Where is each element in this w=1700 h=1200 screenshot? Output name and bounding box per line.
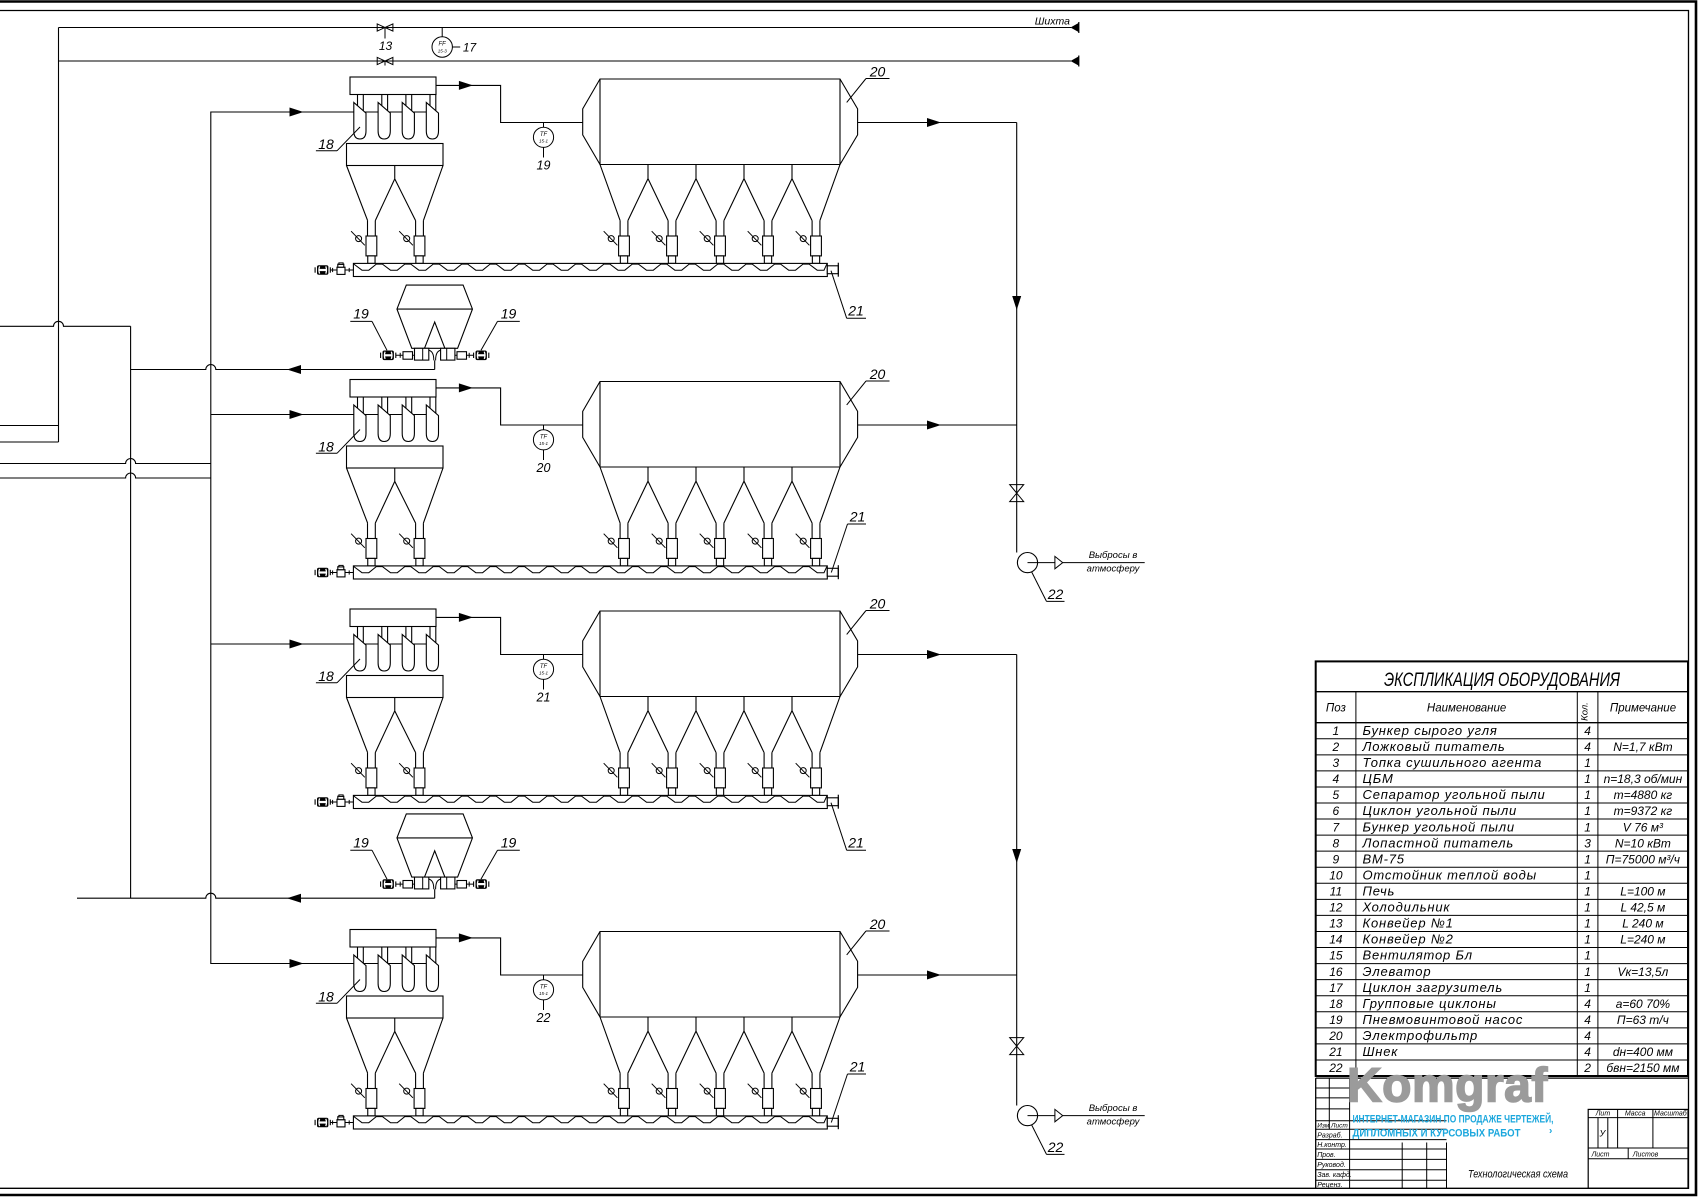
svg-text:Н.контр.: Н.контр. xyxy=(1317,1142,1347,1149)
svg-text:4: 4 xyxy=(1584,997,1591,1011)
svg-text:L=100 м: L=100 м xyxy=(1620,885,1665,899)
fan 22 xyxy=(1017,553,1037,573)
svg-text:ДИПЛОМНЫХ И КУРСОВЫХ РАБОТ: ДИПЛОМНЫХ И КУРСОВЫХ РАБОТ xyxy=(1353,1127,1521,1139)
svg-text:19: 19 xyxy=(537,159,551,173)
svg-text:1: 1 xyxy=(1584,965,1591,979)
svg-text:19: 19 xyxy=(1329,1013,1343,1027)
svg-text:Лист: Лист xyxy=(1330,1123,1348,1130)
svg-text:Зав. кафд.: Зав. кафд. xyxy=(1317,1171,1352,1179)
pump return line 2 xyxy=(77,893,435,898)
svg-text:1: 1 xyxy=(1584,820,1591,834)
collector valve xyxy=(1010,1038,1024,1055)
svg-text:21: 21 xyxy=(847,303,864,319)
charge arrow 1 xyxy=(1071,23,1079,32)
svg-text:Масштаб: Масштаб xyxy=(1654,1110,1688,1118)
svg-text:Конвейер №1: Конвейер №1 xyxy=(1363,916,1454,931)
svg-text:Конвейер №2: Конвейер №2 xyxy=(1363,932,1454,947)
svg-text:1: 1 xyxy=(1584,917,1591,931)
svg-text:4: 4 xyxy=(1584,1029,1591,1043)
pump return line 1 xyxy=(131,365,435,370)
svg-text:Лит: Лит xyxy=(1595,1111,1611,1118)
svg-text:22: 22 xyxy=(1047,1139,1064,1155)
svg-text:4: 4 xyxy=(1584,1013,1591,1027)
svg-text:Vк=13,5л: Vк=13,5л xyxy=(1617,965,1668,979)
svg-text:L=240 м: L=240 м xyxy=(1620,933,1665,947)
svg-text:Вентилятор Бл: Вентилятор Бл xyxy=(1363,948,1473,963)
svg-text:3: 3 xyxy=(1584,836,1591,850)
supply line 2 xyxy=(0,473,211,478)
svg-text:Шнек: Шнек xyxy=(1363,1044,1399,1059)
inlet manifold behind cyclones s4 xyxy=(304,963,434,965)
svg-text:L 42,5 м: L 42,5 м xyxy=(1621,901,1666,915)
svg-text:14: 14 xyxy=(1329,933,1343,947)
svg-text:10: 10 xyxy=(1329,868,1343,882)
svg-text:Разраб.: Разраб. xyxy=(1317,1131,1342,1139)
title block frame xyxy=(1316,1077,1688,1079)
svg-text:атмосферу: атмосферу xyxy=(1087,1117,1141,1128)
section 4 xyxy=(315,916,1017,1129)
flow instrument 17 xyxy=(441,28,443,37)
svg-text:ВМ-75: ВМ-75 xyxy=(1363,851,1405,866)
svg-text:Циклон загрузитель: Циклон загрузитель xyxy=(1363,980,1503,995)
valve 13 upper xyxy=(377,24,393,31)
svg-text:5: 5 xyxy=(1333,788,1340,802)
inlet manifold behind cyclones s2 xyxy=(304,414,434,416)
svg-text:21: 21 xyxy=(536,691,551,705)
svg-text:17: 17 xyxy=(1329,981,1344,995)
svg-text:Ложковый питатель: Ложковый питатель xyxy=(1362,739,1506,754)
svg-text:1: 1 xyxy=(1584,852,1591,866)
svg-text:a=60 70%: a=60 70% xyxy=(1616,997,1671,1011)
svg-text:Поз: Поз xyxy=(1326,703,1347,715)
svg-text:4: 4 xyxy=(1584,1045,1591,1059)
svg-text:dн=400 мм: dн=400 мм xyxy=(1613,1045,1673,1059)
svg-text:1: 1 xyxy=(1584,868,1591,882)
svg-text:1: 1 xyxy=(1333,724,1340,738)
section 2 xyxy=(315,366,1017,579)
charge line 2 xyxy=(59,60,1072,62)
svg-text:Выбросы в: Выбросы в xyxy=(1089,550,1138,561)
svg-text:П=75000 м³/ч: П=75000 м³/ч xyxy=(1606,852,1680,866)
svg-text:18: 18 xyxy=(1329,997,1343,1011)
svg-text:22: 22 xyxy=(1047,586,1064,602)
equipment table frame xyxy=(1316,661,1688,1076)
svg-text:Листов: Листов xyxy=(1632,1151,1659,1158)
collector valve xyxy=(1010,485,1024,502)
svg-text:13: 13 xyxy=(379,39,393,53)
svg-text:2: 2 xyxy=(1332,740,1340,754)
svg-text:m=9372 кг: m=9372 кг xyxy=(1614,804,1673,818)
offpage stub lower xyxy=(0,441,59,443)
offpage stub upper xyxy=(0,425,59,427)
return riser xyxy=(130,326,132,898)
title block small grid xyxy=(1316,1087,1350,1089)
svg-text:1: 1 xyxy=(1584,933,1591,947)
svg-text:21: 21 xyxy=(849,1059,866,1075)
svg-text:1: 1 xyxy=(1584,788,1591,802)
fan 22 xyxy=(1017,1106,1037,1126)
svg-text:4: 4 xyxy=(1333,772,1340,786)
svg-text:13: 13 xyxy=(1329,917,1343,931)
svg-text:20: 20 xyxy=(536,461,551,475)
svg-text:Технологическая схема: Технологическая схема xyxy=(1468,1169,1568,1181)
svg-text:Отстойник теплой воды: Отстойник теплой воды xyxy=(1363,867,1537,882)
svg-text:1: 1 xyxy=(1584,981,1591,995)
svg-text:Выбросы в: Выбросы в xyxy=(1089,1103,1138,1114)
svg-text:атмосферу: атмосферу xyxy=(1087,564,1141,575)
svg-text:Электрофильтр: Электрофильтр xyxy=(1363,1028,1479,1043)
svg-text:Komgraf: Komgraf xyxy=(1347,1060,1548,1113)
feed branch section 2 xyxy=(211,414,354,416)
svg-text:ИНТЕРНЕТ-МАГАЗИН ПО ПРОДАЖЕ ЧЕ: ИНТЕРНЕТ-МАГАЗИН ПО ПРОДАЖЕ ЧЕРТЕЖЕЙ, xyxy=(1353,1112,1554,1125)
charge arrow 2 xyxy=(1071,57,1079,66)
svg-text:21: 21 xyxy=(847,835,864,851)
svg-text:8: 8 xyxy=(1333,836,1340,850)
collector riser xyxy=(1016,655,1018,1106)
pneumo-screw pump unit 19 upper xyxy=(350,285,520,369)
svg-text:Изм: Изм xyxy=(1317,1123,1330,1130)
right liter table xyxy=(1588,1109,1688,1188)
svg-text:Масса: Масса xyxy=(1625,1111,1646,1118)
left riser xyxy=(58,28,60,443)
svg-text:1: 1 xyxy=(1584,756,1591,770)
inlet manifold behind cyclones s3 xyxy=(304,643,434,645)
svg-text:m=4880 кг: m=4880 кг xyxy=(1614,788,1673,802)
valve 13 lower xyxy=(377,57,393,64)
svg-text:Печь: Печь xyxy=(1363,884,1396,899)
svg-text:ЦБМ: ЦБМ xyxy=(1363,771,1394,786)
collector riser xyxy=(1016,123,1018,553)
svg-text:21: 21 xyxy=(849,509,866,525)
svg-text:Бункер сырого угля: Бункер сырого угля xyxy=(1363,723,1498,738)
svg-text:Руковод.: Руковод. xyxy=(1317,1161,1346,1169)
charge line 1 xyxy=(59,27,1072,29)
svg-text:1: 1 xyxy=(1584,885,1591,899)
return header line xyxy=(0,321,131,326)
svg-text:15-3: 15-3 xyxy=(438,49,448,54)
svg-text:Топка сушильного агента: Топка сушильного агента xyxy=(1363,755,1543,770)
section 1 xyxy=(315,64,1017,277)
svg-text:16: 16 xyxy=(1329,965,1343,979)
svg-text:6: 6 xyxy=(1333,804,1340,818)
svg-text:11: 11 xyxy=(1330,885,1342,899)
svg-text:Циклон угольной пыли: Циклон угольной пыли xyxy=(1363,803,1518,818)
svg-text:бвн=2150 мм: бвн=2150 мм xyxy=(1606,1061,1679,1075)
feed manifold xyxy=(211,112,354,964)
svg-text:N=1,7 кВт: N=1,7 кВт xyxy=(1613,740,1672,754)
svg-text:ЭКСПЛИКАЦИЯ ОБОРУДОВАНИЯ: ЭКСПЛИКАЦИЯ ОБОРУДОВАНИЯ xyxy=(1384,670,1620,691)
inlet manifold behind cyclones s1 xyxy=(304,111,434,113)
pneumo-screw pump unit 19 lower xyxy=(350,814,520,898)
svg-text:22: 22 xyxy=(1328,1061,1343,1075)
svg-text:Кол.: Кол. xyxy=(1580,702,1591,721)
svg-text:Пров.: Пров. xyxy=(1317,1152,1336,1159)
svg-text:Лист: Лист xyxy=(1590,1151,1609,1158)
svg-text:L 240 м: L 240 м xyxy=(1622,917,1663,931)
svg-text:2: 2 xyxy=(1583,1061,1591,1075)
svg-text:Шихта: Шихта xyxy=(1035,16,1070,28)
svg-text:9: 9 xyxy=(1333,852,1340,866)
svg-text:1: 1 xyxy=(1584,804,1591,818)
svg-text:FF: FF xyxy=(439,42,447,48)
svg-text:15: 15 xyxy=(1329,949,1343,963)
svg-text:22: 22 xyxy=(536,1011,551,1025)
feed branch section 3 xyxy=(211,643,354,645)
svg-text:1: 1 xyxy=(1584,901,1591,915)
svg-text:17: 17 xyxy=(463,41,478,55)
svg-text:4: 4 xyxy=(1584,724,1591,738)
svg-text:Групповые циклоны: Групповые циклоны xyxy=(1363,996,1497,1011)
svg-text:Наименование: Наименование xyxy=(1427,703,1506,715)
svg-text:Холодильник: Холодильник xyxy=(1362,900,1451,915)
svg-text:П=63 т/ч: П=63 т/ч xyxy=(1617,1013,1669,1027)
svg-text:20: 20 xyxy=(1328,1029,1343,1043)
svg-text:N=10 кВт: N=10 кВт xyxy=(1615,836,1671,850)
section 3 xyxy=(315,596,1017,809)
svg-text:Лопастной питатель: Лопастной питатель xyxy=(1362,835,1515,850)
svg-text:Сепаратор угольной пыли: Сепаратор угольной пыли xyxy=(1363,787,1546,802)
svg-text:12: 12 xyxy=(1329,901,1343,915)
svg-text:1: 1 xyxy=(1584,772,1591,786)
svg-text:Бункер угольной пыли: Бункер угольной пыли xyxy=(1363,819,1515,834)
svg-text:V 76 м³: V 76 м³ xyxy=(1623,820,1664,834)
svg-text:›: › xyxy=(1549,1126,1552,1137)
supply line 1 xyxy=(0,459,211,464)
svg-text:4: 4 xyxy=(1584,740,1591,754)
svg-text:Реценз.: Реценз. xyxy=(1317,1182,1342,1189)
svg-text:21: 21 xyxy=(1328,1045,1342,1059)
svg-text:Элеватор: Элеватор xyxy=(1363,964,1432,979)
svg-text:Пневмовинтовой насос: Пневмовинтовой насос xyxy=(1363,1012,1524,1027)
svg-text:3: 3 xyxy=(1333,756,1340,770)
svg-text:1: 1 xyxy=(1584,949,1591,963)
svg-text:Примечание: Примечание xyxy=(1610,703,1676,715)
svg-text:n=18,3 об/мин: n=18,3 об/мин xyxy=(1604,772,1683,786)
